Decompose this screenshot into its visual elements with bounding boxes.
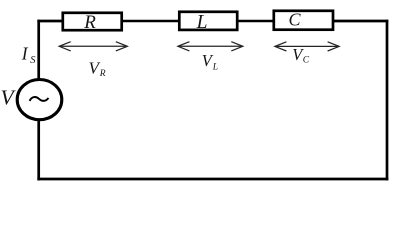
svg-text:L: L <box>212 63 218 73</box>
wire: left vertical segment from source bottom to bottom rail <box>37 119 40 181</box>
inductor L <box>179 12 237 30</box>
svg-text:L: L <box>196 12 208 33</box>
voltage arrow V_R (double-headed) <box>59 42 127 51</box>
wire: left vertical segment from top rail down to source top <box>37 20 40 80</box>
wire: right vertical side <box>386 20 389 181</box>
svg-text:R: R <box>83 12 96 33</box>
sine symbol inside source <box>30 97 49 101</box>
wire: top rail from capacitor to right corner <box>334 20 389 23</box>
resistor R <box>63 13 122 30</box>
svg-text:C: C <box>303 55 310 65</box>
svg-text:C: C <box>288 10 301 30</box>
svg-text:S: S <box>30 55 36 66</box>
wire: top rail from inductor to capacitor <box>238 20 273 23</box>
wire: bottom rail <box>37 178 388 181</box>
wire: top rail from left corner to resistor <box>37 20 63 23</box>
voltage arrow V_L (double-headed) <box>178 42 243 51</box>
AC voltage source circle <box>17 80 62 120</box>
voltage arrow V_C (double-headed) <box>275 42 339 51</box>
svg-text:I: I <box>21 43 29 63</box>
svg-text:R: R <box>99 69 106 79</box>
wire: top rail from resistor to inductor <box>123 20 179 23</box>
capacitor C <box>274 11 333 30</box>
